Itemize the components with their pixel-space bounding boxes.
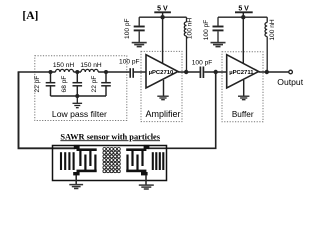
node: LPF rail junction B [75,70,79,74]
svg-text:150 nH: 150 nH [80,62,102,69]
power symbol 5V (buffer supply) [235,6,253,18]
SAWR right IDT bottom pad [141,172,148,175]
node: LPF rail junction C [104,70,108,74]
ground: U1 [157,96,168,100]
svg-text:SAWR sensor with particles: SAWR sensor with particles [60,132,160,141]
capacitor C6 100 pF (series coupling amplifier to buffer) [200,67,203,79]
node: U1 output / choke junction [184,70,188,74]
inductor L3 100 nH (amplifier RF choke) [184,17,186,72]
svg-text:100 pF: 100 pF [203,20,210,41]
inductor L4 100 nH (buffer RF choke) [265,17,267,72]
wire: rail between L1 and L2 [74,71,82,73]
wire: U2 ground stem [243,80,245,96]
SAWR right reflector grating [153,152,164,170]
wire: C6 to buffer input [204,71,227,73]
svg-text:22 pF: 22 pF [34,76,41,93]
SAWR left IDT (input transducer) [77,148,97,172]
svg-text:100 nH: 100 nH [269,19,276,41]
wire: U2 output to output terminal [259,71,289,73]
SAWR right IDT top pad [144,145,150,149]
ground: SAWR right [139,185,154,189]
svg-text:Low pass filter: Low pass filter [52,109,107,119]
wire: amplifier supply rail [139,16,186,18]
svg-text:100 pF: 100 pF [124,18,131,39]
capacitor C2 68 pF (LPF shunt middle) [73,72,83,96]
wire: LPF bottom bus [51,95,107,97]
svg-text:Buffer: Buffer [232,110,254,119]
wire: feedback down to SAWR right terminal [148,72,216,148]
SAWR left IDT top pad [74,145,80,149]
ground: SAWR left [69,185,83,189]
svg-text:Output: Output [277,77,303,87]
wire: rail from L2 to series cap C4 [98,71,129,73]
svg-text:100 pF: 100 pF [119,59,140,66]
capacitor C7 100 pF (buffer supply decoupling) [213,17,224,42]
ground: U2 [238,96,249,100]
wire: supply down to op-amp U1 [162,17,164,65]
svg-text:100 pF: 100 pF [192,59,213,66]
wire: buffer supply rail [218,16,267,18]
SAWR left IDT bottom pad [73,172,79,175]
node: buffer supply junction [241,15,245,19]
capacitor C5 100 pF (amplifier supply decoupling) [134,17,145,42]
power symbol 5V (amplifier supply) [154,6,171,18]
svg-text:22 pF: 22 pF [91,76,98,93]
node: feedback junction to SAWR [214,70,218,74]
wire: SAWR right ground stem [145,175,147,185]
particles (grid of circles) on SAWR surface [103,148,120,173]
dashed box: low pass filter block [35,56,127,121]
wire: C4 to amplifier input [134,71,147,73]
svg-text:150 nH: 150 nH [53,62,75,69]
inductor L2 150 nH [81,69,98,72]
svg-text:100 nH: 100 nH [187,18,194,40]
SAWR right IDT (output transducer) [126,148,146,172]
wire: main rail LPF input segment [18,71,56,73]
SAWR sensor body box [53,146,167,181]
svg-text:[A]: [A] [22,10,38,22]
node: amplifier supply junction [160,15,164,19]
node: LPF rail junction A [49,70,53,74]
node: buffer output / choke junction [265,70,269,74]
inductor L1 150 nH [56,69,74,72]
ground: under C5 [132,43,147,47]
SAWR left reflector grating [61,152,74,170]
ground: under C7 [211,43,226,47]
dashed box: buffer block [222,52,263,122]
output terminal (open circle) [289,70,293,74]
svg-text:68 pF: 68 pF [61,76,68,93]
capacitor C4 100 pF (series coupling LPF to amplifier) [130,68,133,78]
wire: U1 ground stem [163,80,165,96]
svg-text:µPC2710: µPC2710 [149,70,174,76]
wire: SAWR left ground stem [75,175,77,184]
svg-text:µPC2711: µPC2711 [229,70,254,76]
wire: supply down to op-amp U2 [242,17,244,65]
op-amp U1 uPC2710 [146,55,178,88]
node: LPF bottom bus junction [75,94,79,98]
wire: U1 output to C6 [178,71,200,73]
capacitor C3 22 pF (LPF shunt right) [101,72,111,96]
op-amp U2 uPC2711 [227,55,259,88]
capacitor C1 22 pF (LPF shunt left) [46,72,56,96]
ground: LPF [73,96,83,108]
svg-text:Amplifier: Amplifier [145,109,180,119]
dashed box: amplifier block [141,51,182,121]
wire: left loop from LPF input down to SAWR left terminal [19,72,76,148]
